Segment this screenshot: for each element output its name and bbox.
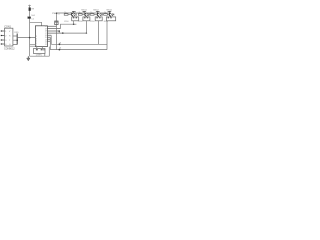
connector pin tip ticks: [1, 30, 2, 44]
connector left pin stubs: [1, 31, 5, 44]
connector label text: [4, 26, 15, 51]
VCC rail across units: [57, 12, 111, 14]
svg-text:1k: 1k: [64, 12, 66, 14]
wire base unit4: [107, 14, 109, 16]
wire link pin3 to L4: [58, 31, 60, 33]
svg-text:1k: 1k: [79, 12, 81, 14]
wire base unit3: [94, 14, 97, 16]
VCC bar unit1: [72, 11, 76, 13]
transistor Q4: [109, 13, 111, 17]
IC U1 box: [35, 26, 47, 47]
ground wire bottom horizontal: [30, 47, 50, 57]
svg-text:S9012: S9012: [93, 9, 98, 11]
transistor Q3: [97, 13, 99, 17]
svg-text:CON1: CON1: [4, 26, 11, 29]
crystal label text: [36, 55, 42, 57]
svg-text:RXD: RXD: [14, 32, 19, 34]
wire drop unit3: [97, 21, 99, 45]
junction dot connector net: [16, 39, 18, 41]
IC pin numbers left column: [36, 36, 37, 47]
wire long vertical x56.5: [56, 13, 58, 49]
wire L1 digit1: [50, 24, 107, 49]
digit box DS1: [72, 17, 79, 21]
wire connector right-side stubs: [13, 34, 36, 45]
svg-text:12MHz: 12MHz: [36, 55, 42, 57]
VCC bar unit3: [96, 11, 100, 13]
svg-text:12: 12: [45, 44, 47, 46]
resistor R4: [104, 14, 108, 16]
resistor R3: [90, 14, 94, 16]
capacitor C blob: [28, 17, 31, 19]
junction dots on bus lines: [73, 23, 75, 25]
wire L4 digit2: [63, 32, 87, 34]
svg-text:6: 6: [36, 45, 37, 47]
resistor R top (filled): [29, 8, 31, 11]
svg-text:S9012: S9012: [106, 9, 111, 11]
wire base unit1: [68, 14, 72, 16]
wire drop unit2: [85, 21, 87, 33]
wire LA digit3: [51, 35, 107, 44]
svg-text:S9012: S9012: [81, 9, 86, 11]
crystal inner marks: [36, 49, 45, 50]
svg-text:8550: 8550: [78, 21, 82, 23]
connector J1 box: [5, 28, 13, 46]
wire drop unit4: [106, 21, 108, 50]
junction dot gnd/wire crossing: [29, 37, 31, 39]
net label above vertical: [14, 32, 19, 34]
digit box DS3: [95, 17, 102, 21]
wire connector to IC: [17, 37, 35, 39]
wire drop unit1: [73, 21, 75, 24]
IC right pin lines: [47, 26, 62, 41]
svg-text:CON9012: CON9012: [4, 47, 15, 50]
transistor Q1: [72, 13, 74, 17]
svg-text:8550: 8550: [90, 21, 94, 23]
component box on bus: [55, 21, 58, 25]
wire VCC vertical: [29, 6, 31, 57]
junction dot top of bus: [56, 12, 58, 14]
crystal box Y1: [34, 49, 46, 54]
wire VCC branch to IC top: [30, 22, 42, 26]
IC left pin stubs: [30, 45, 36, 47]
digit box DS4: [106, 17, 115, 21]
wire base unit2: [82, 14, 85, 16]
digit box DS2: [83, 17, 90, 21]
connector pin labels inside: [5, 31, 11, 46]
VCC bar unit4: [108, 11, 112, 13]
wire vertical right of connector: [16, 34, 18, 45]
svg-text:8550: 8550: [64, 21, 68, 23]
IC pin numbers right column: [45, 26, 47, 46]
label text near top resistor: [31, 8, 35, 20]
label text under resistors: [64, 21, 108, 23]
svg-text:1k: 1k: [90, 12, 92, 14]
IC bottom stubs to crystal: [37, 47, 43, 49]
VCC bar unit2: [83, 11, 87, 13]
resistor R1: [64, 14, 68, 16]
svg-text:8550: 8550: [104, 21, 108, 23]
transistor Q2: [85, 13, 87, 17]
resistor R2: [78, 14, 82, 16]
svg-text:1k: 1k: [104, 12, 106, 14]
VCC power bar top center: [28, 5, 31, 6]
ground symbol: [27, 56, 30, 60]
bus vertical with cap component: [55, 13, 58, 49]
net label near top dot: [52, 13, 61, 15]
wire LB digit4: [50, 37, 107, 49]
component inner marks: [55, 21, 58, 24]
